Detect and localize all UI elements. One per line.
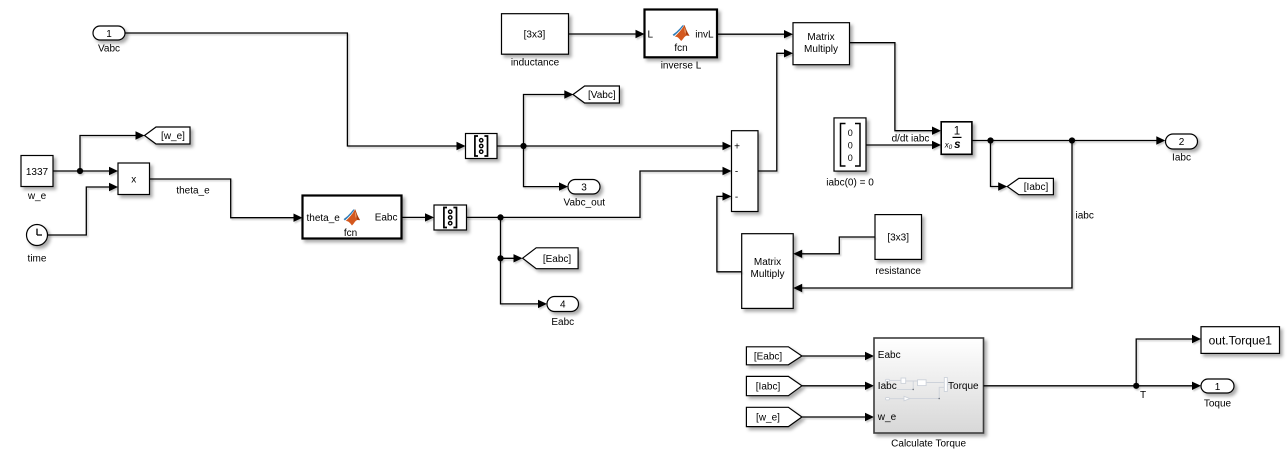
svg-text:-: - [735,192,738,203]
svg-text:[Eabc]: [Eabc] [754,352,783,363]
wire inverse L to matrix multiply 1 [717,30,793,38]
svg-text:inductance: inductance [511,58,560,69]
wire IC to integrator x0 input [866,141,941,149]
wire clock to product [48,183,119,235]
from tag Eabc [746,347,802,365]
svg-text:4: 4 [560,300,566,311]
constant w_e 1337 [21,156,53,203]
mux block 1 (Vabc path) [466,134,498,159]
product block x [118,163,150,195]
wire integrator to outport 2 Iabc [972,136,1165,144]
constant inductance [3x3] [502,14,569,69]
wire iabc feedback down to matrix multiply 2 [793,141,1072,293]
wire fcn to mux2 [402,213,435,221]
to workspace out.Torque1 [1201,327,1280,354]
svg-text:Vabc_out: Vabc_out [564,197,606,208]
svg-text:Iabc: Iabc [1172,153,1191,164]
inport 1 Vabc [93,26,125,55]
svg-text:[w_e]: [w_e] [756,413,780,424]
wire branch to out.Torque1 [1136,335,1201,386]
svg-text:Eabc: Eabc [375,213,398,224]
svg-text:resistance: resistance [875,266,921,277]
svg-text:Toque: Toque [1204,398,1232,409]
wire branch to outport 3 [524,146,569,191]
wire constant to product [53,167,118,175]
svg-text:x: x [131,174,136,185]
outport 2 Iabc [1166,134,1198,164]
svg-text:[Eabc]: [Eabc] [543,254,572,265]
svg-text:Calculate Torque: Calculate Torque [891,438,966,449]
svg-text:1337: 1337 [26,167,49,178]
svg-text:s: s [954,139,960,151]
constant resistance [3x3] [875,215,922,278]
svg-text:0: 0 [848,153,853,163]
wire matrix multiply 2 to sum input 3 [717,192,742,272]
svg-text:d/dt iabc: d/dt iabc [892,133,930,144]
svg-text:T: T [1140,390,1146,401]
sum block [732,131,759,212]
goto tag Iabc [1007,178,1053,194]
svg-text:Torque: Torque [948,381,979,392]
svg-text:L: L [648,30,654,41]
wire from w_e to subsystem [802,413,874,421]
svg-text:2: 2 [1179,137,1185,148]
svg-text:Vabc: Vabc [98,44,120,55]
svg-text:out.Torque1: out.Torque1 [1209,333,1273,347]
clock time [27,225,48,265]
svg-text:fcn: fcn [344,228,357,239]
outport 3 Vabc_out [564,180,606,209]
svg-text:iabc: iabc [1076,210,1094,221]
svg-text:[w_e]: [w_e] [161,131,185,142]
svg-text:3: 3 [581,183,587,194]
svg-text:Iabc: Iabc [878,381,897,392]
svg-text:1: 1 [106,29,112,40]
svg-text:[Iabc]: [Iabc] [756,382,781,393]
goto tag Eabc [523,248,579,269]
svg-text:w_e: w_e [877,412,897,423]
svg-text:1: 1 [954,126,960,138]
wire resistance to matrix multiply 2 [793,237,875,258]
svg-text:[Iabc]: [Iabc] [1024,182,1049,193]
svg-text:theta_e: theta_e [176,186,210,197]
svg-text:iabc(0) = 0: iabc(0) = 0 [826,177,874,188]
svg-text:Multiply: Multiply [804,44,838,55]
svg-text:time: time [28,254,47,265]
matrix multiply 2 (flipped) [742,234,794,309]
goto tag w_e [145,127,191,144]
wire branch to outport 4 [501,258,548,308]
outport 1 Toque [1201,379,1234,409]
svg-text:[Vabc]: [Vabc] [588,90,616,101]
svg-text:Matrix: Matrix [754,257,781,268]
svg-text:[3x3]: [3x3] [524,30,546,41]
MATLAB function inverse L [645,10,718,72]
svg-text:fcn: fcn [674,43,687,54]
wire branch to goto Iabc [991,141,1008,191]
MATLAB function fcn (theta_e to Eabc) [303,196,402,240]
svg-text:[3x3]: [3x3] [887,233,909,244]
subsystem Calculate Torque [874,338,984,449]
wire sum to matrix multiply 1 input 2 [758,49,793,171]
svg-text:0: 0 [848,128,853,138]
matrix multiply 1 [793,23,850,65]
wire mux1 to sum input 1 [497,142,732,150]
wire Vabc inport to mux1 [125,33,466,150]
from tag Iabc [746,376,802,395]
outport 4 Eabc [547,297,579,328]
from tag w_e [746,407,802,426]
svg-text:inverse L: inverse L [661,60,702,71]
wire product to fcn theta_e [150,179,303,222]
wire junction to goto w_e [80,131,145,171]
svg-text:Multiply: Multiply [751,269,785,280]
svg-text:invL: invL [695,29,714,40]
wire from Eabc to subsystem [802,352,874,360]
goto tag Vabc [573,86,619,103]
svg-text:w_e: w_e [27,191,47,202]
svg-text:Eabc: Eabc [878,350,901,361]
wire subsystem output to outport 1 [984,382,1202,390]
wire branch to goto Eabc [497,217,522,262]
wire matrix multiply 1 to integrator [850,43,942,135]
IC block iabc(0)=0 [826,118,874,188]
svg-text:1: 1 [1215,382,1221,393]
integrator 1/s [941,122,972,155]
svg-text:Eabc: Eabc [551,317,574,328]
svg-text:theta_e: theta_e [307,213,341,224]
wire inductance to inverse L [569,30,645,38]
svg-text:+: + [734,142,740,153]
wire from Iabc to subsystem [802,382,874,390]
svg-text:Matrix: Matrix [807,32,834,43]
svg-text:-: - [735,166,738,177]
mux block 2 (Eabc path) [434,205,467,230]
svg-text:0: 0 [848,141,853,151]
wire mux2 to sum input 2 [467,167,732,221]
wire branch to goto Vabc [524,90,574,146]
